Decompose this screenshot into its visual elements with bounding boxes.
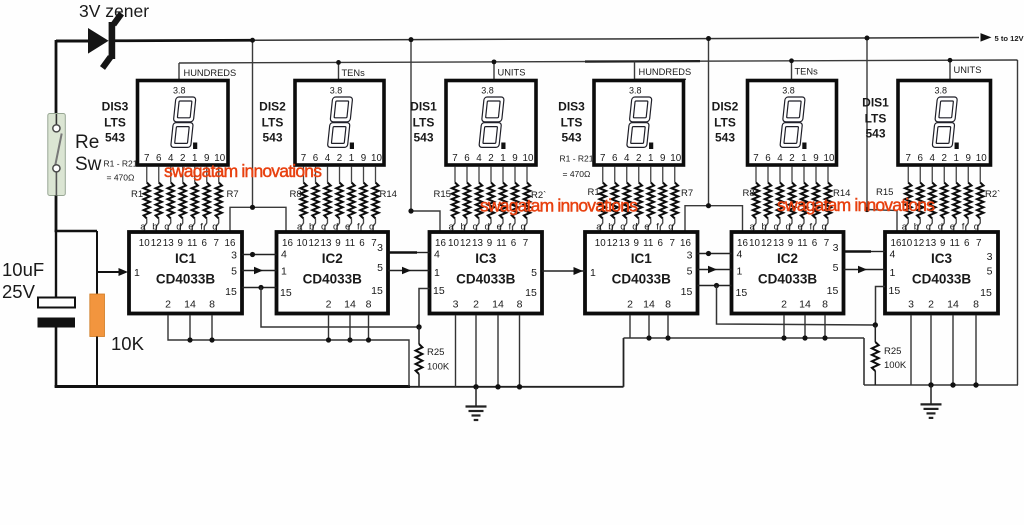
junction [250, 38, 255, 43]
wire: IC2 pin5 to IC3 pin1 (clock arrow) [388, 270, 430, 272]
svg-text:LTS: LTS [714, 116, 736, 130]
svg-text:2: 2 [781, 299, 787, 311]
svg-text:6: 6 [359, 238, 365, 249]
svg-text:11: 11 [950, 238, 960, 249]
resistor segment f [815, 167, 817, 183]
svg-text:swagatam innovations: swagatam innovations [480, 196, 638, 216]
resistor segment a [602, 167, 604, 183]
wire: drop from V+ rail to IC6 pin16 [866, 38, 868, 210]
svg-text:12: 12 [607, 238, 618, 249]
svg-text:16: 16 [891, 238, 902, 249]
svg-text:6: 6 [612, 153, 618, 164]
capacitor C1 10uF 25V top plate [38, 298, 75, 308]
wire: IC4 pin2 [629, 315, 631, 338]
resistor segment a [146, 167, 148, 183]
resistor segment e [955, 167, 957, 183]
wire: IC1 pin15 to IC2 pin15 [242, 287, 277, 289]
svg-text:6: 6 [202, 238, 208, 249]
svg-text:3: 3 [377, 242, 383, 254]
resistor segment c [931, 167, 933, 183]
resistor network R1-R7 (display DIS3 group1) [596, 167, 678, 233]
resistor segment f [514, 167, 516, 183]
svg-text:R25: R25 [884, 346, 901, 357]
junction [416, 324, 421, 329]
svg-text:543: 543 [865, 127, 885, 141]
svg-text:R7: R7 [227, 189, 239, 200]
svg-text:IC3: IC3 [931, 251, 953, 266]
svg-text:2: 2 [789, 153, 794, 164]
resistor segment c [327, 167, 329, 183]
wire: IC3 pin5 to IC4 pin1 (carry arrow) [542, 270, 585, 272]
svg-text:IC3: IC3 [475, 251, 497, 266]
svg-text:1: 1 [134, 267, 140, 279]
wire: IC6 pin8 [975, 315, 977, 385]
junction [250, 205, 255, 210]
svg-text:13: 13 [321, 238, 332, 249]
svg-text:15: 15 [225, 286, 237, 298]
junction [802, 335, 807, 340]
resistor segment e [351, 167, 353, 183]
svg-text:4: 4 [434, 249, 440, 261]
ground symbol (group2) [930, 385, 932, 404]
svg-text:7: 7 [600, 153, 605, 164]
junction [714, 283, 719, 288]
wire: drop from V+ rail to IC3 pin16 [410, 40, 412, 211]
resistor 10K (orange body) [90, 294, 105, 337]
svg-text:11: 11 [187, 238, 197, 249]
svg-text:16: 16 [737, 238, 748, 249]
svg-text:3: 3 [987, 251, 993, 263]
resistor segment e [502, 167, 504, 183]
svg-text:CD4033B: CD4033B [156, 272, 216, 287]
resistor R25 100K (group1) [418, 327, 420, 344]
svg-text:7: 7 [523, 238, 528, 249]
junction [822, 335, 827, 340]
wire: ground bus group2 [864, 384, 1018, 386]
svg-text:10: 10 [297, 238, 308, 249]
svg-text:8: 8 [665, 299, 671, 311]
svg-text:543: 543 [105, 131, 125, 145]
svg-text:7: 7 [824, 238, 829, 249]
svg-text:LTS: LTS [104, 116, 126, 130]
svg-text:14: 14 [947, 299, 959, 311]
svg-text:R14: R14 [380, 189, 397, 200]
svg-text:CD4033B: CD4033B [456, 272, 516, 287]
svg-text:12: 12 [151, 238, 162, 249]
svg-text:3: 3 [908, 299, 914, 311]
resistor segment f [363, 167, 365, 183]
svg-text:6: 6 [156, 153, 162, 164]
resistor segment f [967, 167, 969, 183]
svg-text:swagatam innovations: swagatam innovations [164, 161, 322, 181]
resistor segment b [919, 167, 921, 183]
svg-text:4: 4 [476, 153, 482, 164]
svg-text:2: 2 [627, 299, 633, 311]
svg-text:8: 8 [209, 299, 215, 311]
svg-text:3: 3 [833, 242, 839, 254]
junction [865, 35, 870, 40]
resistor segment c [779, 167, 781, 183]
svg-text:4: 4 [890, 249, 896, 261]
svg-text:7: 7 [753, 153, 758, 164]
svg-text:LTS: LTS [262, 116, 284, 130]
svg-text:UNITS: UNITS [498, 67, 526, 77]
svg-text:10: 10 [901, 238, 912, 249]
svg-text:CD4033B: CD4033B [912, 272, 972, 287]
svg-text:5: 5 [987, 266, 993, 278]
svg-text:3.8: 3.8 [782, 86, 795, 96]
junction [495, 384, 500, 389]
wire: IC6 pin15 step [876, 287, 886, 326]
svg-text:10: 10 [371, 153, 382, 164]
junction [366, 337, 371, 342]
zener diode 3V [88, 28, 109, 54]
svg-text:DIS1: DIS1 [410, 100, 437, 114]
svg-text:HUNDREDS: HUNDREDS [184, 68, 237, 78]
svg-text:7: 7 [976, 238, 981, 249]
svg-text:1: 1 [590, 267, 596, 279]
svg-text:1: 1 [954, 153, 959, 164]
svg-text:100K: 100K [427, 362, 450, 373]
svg-text:7: 7 [670, 238, 675, 249]
resistor segment b [466, 167, 468, 183]
svg-text:5: 5 [377, 262, 383, 274]
resistor segment g [375, 167, 377, 183]
svg-text:R8: R8 [743, 188, 755, 199]
junction [473, 384, 478, 389]
svg-text:9: 9 [660, 153, 665, 164]
resistor segment e [803, 167, 805, 183]
reed switch [48, 114, 66, 196]
svg-text:8: 8 [517, 299, 523, 311]
resistor segment d [339, 167, 341, 183]
wire: IC5 pin5 to IC6 pin1 (clock arrow) [844, 269, 886, 271]
svg-text:9: 9 [335, 238, 340, 249]
svg-text:3.8: 3.8 [934, 86, 947, 96]
svg-text:12: 12 [913, 238, 924, 249]
junction [250, 252, 255, 257]
svg-text:R1 - R21: R1 - R21 [104, 159, 138, 169]
wire: IC5 pin3 to IC6 pin4 [844, 250, 872, 253]
resistor segment e [650, 167, 652, 183]
junction [706, 203, 711, 208]
svg-text:25V: 25V [2, 281, 36, 302]
node HUNDREDS callout (group1) [178, 63, 180, 81]
node UNITS callout (group1) [493, 62, 495, 81]
svg-text:= 470Ω: = 470Ω [563, 169, 591, 179]
svg-text:3.8: 3.8 [481, 86, 494, 96]
op-amp/counter IC IC2 CD4033B (position 2) [277, 232, 389, 314]
resistor segment b [767, 167, 769, 183]
resistor segment a [454, 167, 456, 183]
resistor segment d [791, 167, 793, 183]
wire: IC6 pin3 down to gnd bus [910, 315, 912, 385]
wire: ground bus group1 (thick) [55, 385, 410, 388]
svg-text:16: 16 [680, 238, 691, 249]
svg-text:4: 4 [624, 153, 630, 164]
svg-text:3: 3 [231, 250, 237, 262]
wire: IC2 pin14 [349, 315, 351, 340]
resistor segment g [218, 167, 220, 183]
resistor segment d [943, 167, 945, 183]
svg-text:Re: Re [75, 132, 99, 153]
svg-text:11: 11 [496, 238, 506, 249]
svg-text:15: 15 [371, 285, 383, 297]
resistor network R8-R14 (display DIS2 group2) [297, 167, 379, 233]
resistor network R8-R14 (display DIS2 group2) [750, 167, 832, 233]
svg-text:12: 12 [460, 238, 471, 249]
svg-text:3.8: 3.8 [330, 86, 343, 96]
svg-text:543: 543 [561, 131, 581, 145]
junction [347, 337, 352, 342]
junction [950, 382, 955, 387]
wire: IC6 pin16 feed [867, 210, 897, 231]
wire: drop from V+ rail to IC4/IC5 pin16 [708, 39, 710, 206]
svg-text:7: 7 [144, 153, 149, 164]
svg-text:15: 15 [433, 285, 445, 297]
svg-text:10uF: 10uF [2, 259, 44, 280]
wire: IC2 pin8 [368, 315, 370, 340]
svg-text:5: 5 [231, 266, 237, 278]
svg-text:7: 7 [906, 153, 911, 164]
svg-text:15: 15 [736, 287, 748, 299]
wire: down to capacitor top [55, 231, 57, 299]
resistor network R15-R21 (display DIS1 group2) [902, 167, 984, 233]
svg-text:2: 2 [942, 153, 947, 164]
svg-text:LTS: LTS [413, 116, 435, 130]
display DIS3 LTS543 seven-segment (HUNDREDS group2) [594, 81, 684, 166]
svg-text:9: 9 [940, 238, 945, 249]
svg-text:3V zener: 3V zener [79, 1, 149, 21]
junction [873, 322, 878, 327]
wire: IC2 pin2 [328, 315, 330, 340]
svg-text:LTS: LTS [865, 112, 887, 126]
wire: IC3 pin8 [519, 315, 521, 387]
svg-text:9: 9 [178, 238, 183, 249]
junction [187, 337, 192, 342]
svg-text:6: 6 [812, 238, 818, 249]
display DIS1 LTS543 seven-segment (UNITS group2) [898, 81, 991, 166]
wire: left vertical from V+ rail to reed switch [55, 40, 58, 114]
svg-text:14: 14 [344, 299, 356, 311]
display DIS2 LTS543 seven-segment (TENs group1) [295, 81, 384, 166]
svg-text:2: 2 [488, 153, 493, 164]
node TENs callout (group2) [791, 61, 793, 80]
svg-text:9: 9 [634, 238, 639, 249]
svg-text:2: 2 [326, 299, 332, 311]
wire: IC5 pin2 [783, 315, 785, 338]
svg-text:1: 1 [281, 266, 287, 278]
wire: pin15 bus group1 down and right to R25 [261, 288, 419, 328]
svg-text:15: 15 [827, 285, 839, 297]
wire: bus step down [863, 338, 865, 385]
node TENs callout (group1) [338, 62, 340, 80]
resistor segment g [674, 167, 676, 183]
wire: 10K top lead [96, 231, 98, 294]
svg-text:543: 543 [413, 131, 433, 145]
svg-text:1: 1 [801, 153, 806, 164]
wire: drop from V+ rail to IC1/IC2 pin16 [252, 40, 254, 207]
svg-text:LTS: LTS [561, 116, 583, 130]
svg-text:DIS1: DIS1 [862, 96, 889, 110]
svg-text:7: 7 [214, 238, 219, 249]
svg-text:IC2: IC2 [322, 251, 343, 266]
svg-text:R15: R15 [434, 189, 451, 200]
resistor segment e [194, 167, 196, 183]
svg-text:1: 1 [890, 267, 896, 279]
svg-text:16: 16 [225, 238, 236, 249]
svg-text:15: 15 [980, 287, 992, 299]
capacitor C1 bottom plate [38, 318, 76, 328]
svg-text:13: 13 [619, 238, 630, 249]
svg-text:6: 6 [918, 153, 924, 164]
svg-text:4: 4 [777, 153, 783, 164]
junction [928, 382, 933, 387]
svg-text:7: 7 [371, 238, 376, 249]
op-amp/counter IC IC3 CD4033B (position 6) [885, 232, 998, 314]
resistor segment d [638, 167, 640, 183]
ground symbol (group1) [475, 387, 477, 406]
wire: pin15 bus group2 down and right to R25 [717, 286, 876, 326]
svg-text:11: 11 [345, 238, 355, 249]
junction [706, 36, 711, 41]
wire: IC1 pin5 to IC2 pin1 (clock arrow) [242, 270, 277, 272]
svg-text:4: 4 [325, 153, 331, 164]
svg-text:9: 9 [512, 153, 517, 164]
svg-text:DIS3: DIS3 [102, 100, 129, 114]
svg-text:IC2: IC2 [777, 251, 798, 266]
svg-text:DIS3: DIS3 [558, 100, 585, 114]
display DIS3 LTS543 seven-segment (HUNDREDS group1) [138, 81, 229, 166]
svg-text:5: 5 [833, 262, 839, 274]
svg-text:9: 9 [966, 153, 971, 164]
svg-text:16: 16 [282, 238, 293, 249]
svg-text:9: 9 [361, 153, 366, 164]
resistor segment g [979, 167, 981, 183]
junction [258, 285, 263, 290]
wire: IC4 pin5 to IC5 pin1 (clock arrow) [698, 269, 732, 271]
svg-text:1: 1 [349, 153, 354, 164]
svg-text:5 to 12V: 5 to 12V [995, 34, 1024, 43]
junction [408, 208, 413, 213]
resistor segment d [182, 167, 184, 183]
svg-text:100K: 100K [884, 360, 907, 371]
svg-text:12: 12 [761, 238, 772, 249]
svg-text:10: 10 [595, 238, 606, 249]
svg-text:4: 4 [281, 249, 287, 261]
svg-text:= 470Ω: = 470Ω [107, 173, 135, 183]
svg-text:11: 11 [797, 238, 807, 249]
svg-text:8: 8 [973, 299, 979, 311]
op-amp/counter IC IC2 CD4033B (position 5) [732, 232, 844, 314]
svg-text:TENs: TENs [342, 68, 366, 78]
svg-text:12: 12 [309, 238, 320, 249]
svg-text:Sw: Sw [75, 154, 102, 175]
wire: IC6 pin2 [930, 315, 932, 385]
op-amp/counter IC IC1 CD4033B (position 4) [585, 232, 698, 314]
wire: IC1 pin16 feed [230, 207, 286, 232]
resistor segment c [478, 167, 480, 183]
svg-text:11: 11 [643, 238, 653, 249]
svg-text:10: 10 [976, 153, 987, 164]
wire: IC3 pin14 [497, 315, 499, 387]
svg-text:R8: R8 [290, 189, 302, 200]
svg-text:10: 10 [824, 153, 835, 164]
svg-text:UNITS: UNITS [954, 65, 982, 75]
svg-text:9: 9 [788, 238, 793, 249]
wire: IC1 pin8 [211, 315, 213, 340]
op-amp/counter IC IC3 CD4033B (position 3) [430, 232, 543, 314]
svg-text:R1 - R21: R1 - R21 [560, 154, 594, 164]
wire: reed switch to capacitor junction [55, 196, 58, 233]
svg-text:14: 14 [492, 299, 504, 311]
svg-text:10: 10 [448, 238, 459, 249]
wire: IC4 pin8 [667, 315, 669, 338]
svg-text:3: 3 [687, 250, 693, 262]
junction [409, 37, 414, 42]
svg-text:13: 13 [163, 238, 174, 249]
svg-text:1: 1 [434, 267, 440, 279]
wire: IC3 pin15 step [419, 289, 430, 328]
svg-text:8: 8 [366, 299, 372, 311]
svg-text:8: 8 [822, 299, 828, 311]
wire: IC5 pin8 [824, 315, 826, 338]
resistor segment b [614, 167, 616, 183]
svg-text:DIS2: DIS2 [712, 100, 739, 114]
svg-text:CD4033B: CD4033B [758, 272, 818, 287]
svg-text:R7: R7 [681, 188, 693, 199]
svg-text:10K: 10K [111, 333, 145, 354]
svg-text:14: 14 [184, 299, 196, 311]
svg-text:5: 5 [531, 267, 537, 279]
wire: IC1 pin3 to IC2 pin4 [242, 254, 277, 256]
wire: IC2 pin3 to IC3 pin4 [388, 251, 417, 254]
junction [706, 251, 711, 256]
display DIS2 LTS543 seven-segment (TENs group2) [748, 81, 837, 166]
arrow: supply output 5 to 12V [981, 33, 992, 42]
svg-text:15: 15 [681, 286, 693, 298]
resistor segment a [907, 167, 909, 183]
junction [781, 335, 786, 340]
resistor segment c [626, 167, 628, 183]
svg-text:3.8: 3.8 [629, 86, 642, 96]
resistor segment a [303, 167, 305, 183]
svg-text:1: 1 [500, 153, 505, 164]
svg-text:R1: R1 [131, 189, 143, 200]
wire: IC5 pin14 [804, 315, 806, 338]
svg-text:543: 543 [715, 131, 735, 145]
svg-text:6: 6 [464, 153, 470, 164]
junction [646, 335, 651, 340]
resistor segment d [490, 167, 492, 183]
resistor network R15-R21 (display DIS1 group2) [449, 167, 531, 233]
wire: second rail (display callout rail) [179, 60, 1018, 63]
op-amp/counter IC IC1 CD4033B (position 1) [129, 232, 242, 314]
svg-text:1: 1 [648, 153, 653, 164]
resistor segment g [526, 167, 528, 183]
svg-text:14: 14 [799, 299, 811, 311]
resistor segment f [206, 167, 208, 183]
wire: right edge vertical down to ground bus [1017, 60, 1019, 385]
wire: IC4 pin3 to IC5 pin4 [698, 253, 732, 255]
svg-text:10: 10 [749, 238, 760, 249]
svg-text:2: 2 [928, 299, 934, 311]
svg-text:1: 1 [737, 266, 743, 278]
resistor R25 100K (group2) [874, 325, 876, 342]
svg-text:R25: R25 [427, 347, 444, 358]
svg-text:543: 543 [262, 131, 282, 145]
svg-text:2: 2 [473, 299, 479, 311]
